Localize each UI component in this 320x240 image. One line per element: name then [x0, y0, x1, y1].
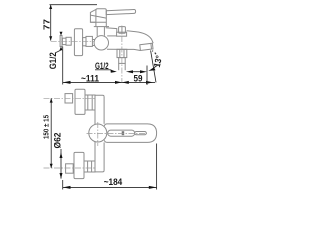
svg-text:G1/2: G1/2 — [48, 52, 58, 69]
svg-text:~111: ~111 — [81, 74, 99, 84]
svg-text:77: 77 — [41, 19, 51, 30]
svg-text:59: 59 — [134, 73, 143, 83]
svg-text:G1/2: G1/2 — [95, 61, 109, 71]
svg-text:150 ± 15: 150 ± 15 — [42, 115, 51, 139]
svg-text:~184: ~184 — [104, 177, 123, 187]
svg-text:Ø62: Ø62 — [53, 133, 63, 149]
